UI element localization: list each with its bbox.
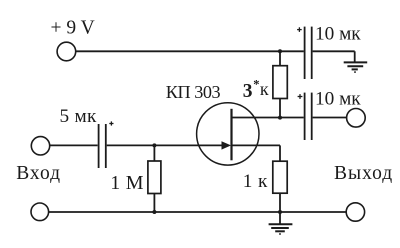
svg-text:*: * xyxy=(253,77,259,91)
svg-text:10 мк: 10 мк xyxy=(315,24,361,45)
svg-text:к: к xyxy=(260,79,269,99)
svg-text:Вход: Вход xyxy=(16,163,61,184)
svg-text:1 к: 1 к xyxy=(243,171,268,192)
svg-text:КП 303: КП 303 xyxy=(166,82,221,102)
svg-text:5 мк: 5 мк xyxy=(60,106,98,127)
svg-text:Выход: Выход xyxy=(334,163,393,184)
svg-text:1 М: 1 М xyxy=(110,172,143,194)
svg-text:+ 9 V: + 9 V xyxy=(51,18,95,39)
svg-text:3: 3 xyxy=(243,81,253,102)
svg-text:10 мк: 10 мк xyxy=(315,88,361,109)
